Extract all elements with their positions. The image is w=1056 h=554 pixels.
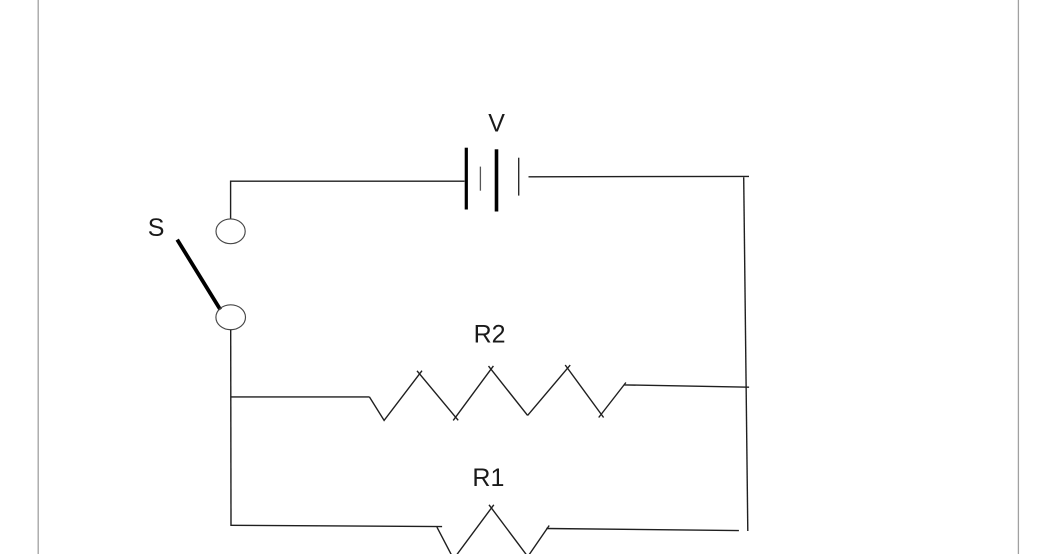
resistor R1 (437, 505, 549, 554)
switch S top terminal (216, 219, 245, 244)
wire R2 right (624, 385, 749, 387)
wire switch top to battery (top-left) (231, 181, 465, 219)
wire battery to right corner (529, 175, 750, 177)
resistor R2 (369, 365, 626, 420)
battery V (466, 148, 518, 212)
wire bottom right (546, 529, 739, 531)
svg-text:R1: R1 (472, 464, 504, 492)
svg-text:R2: R2 (474, 320, 506, 348)
svg-text:S: S (148, 214, 165, 242)
wire bottom left (231, 525, 442, 526)
switch S bottom terminal (216, 305, 246, 330)
switch S lever (177, 240, 220, 310)
wire right vertical (744, 177, 748, 531)
wire left vertical (230, 330, 232, 526)
svg-text:V: V (488, 109, 505, 137)
wire R2 left (231, 396, 369, 398)
